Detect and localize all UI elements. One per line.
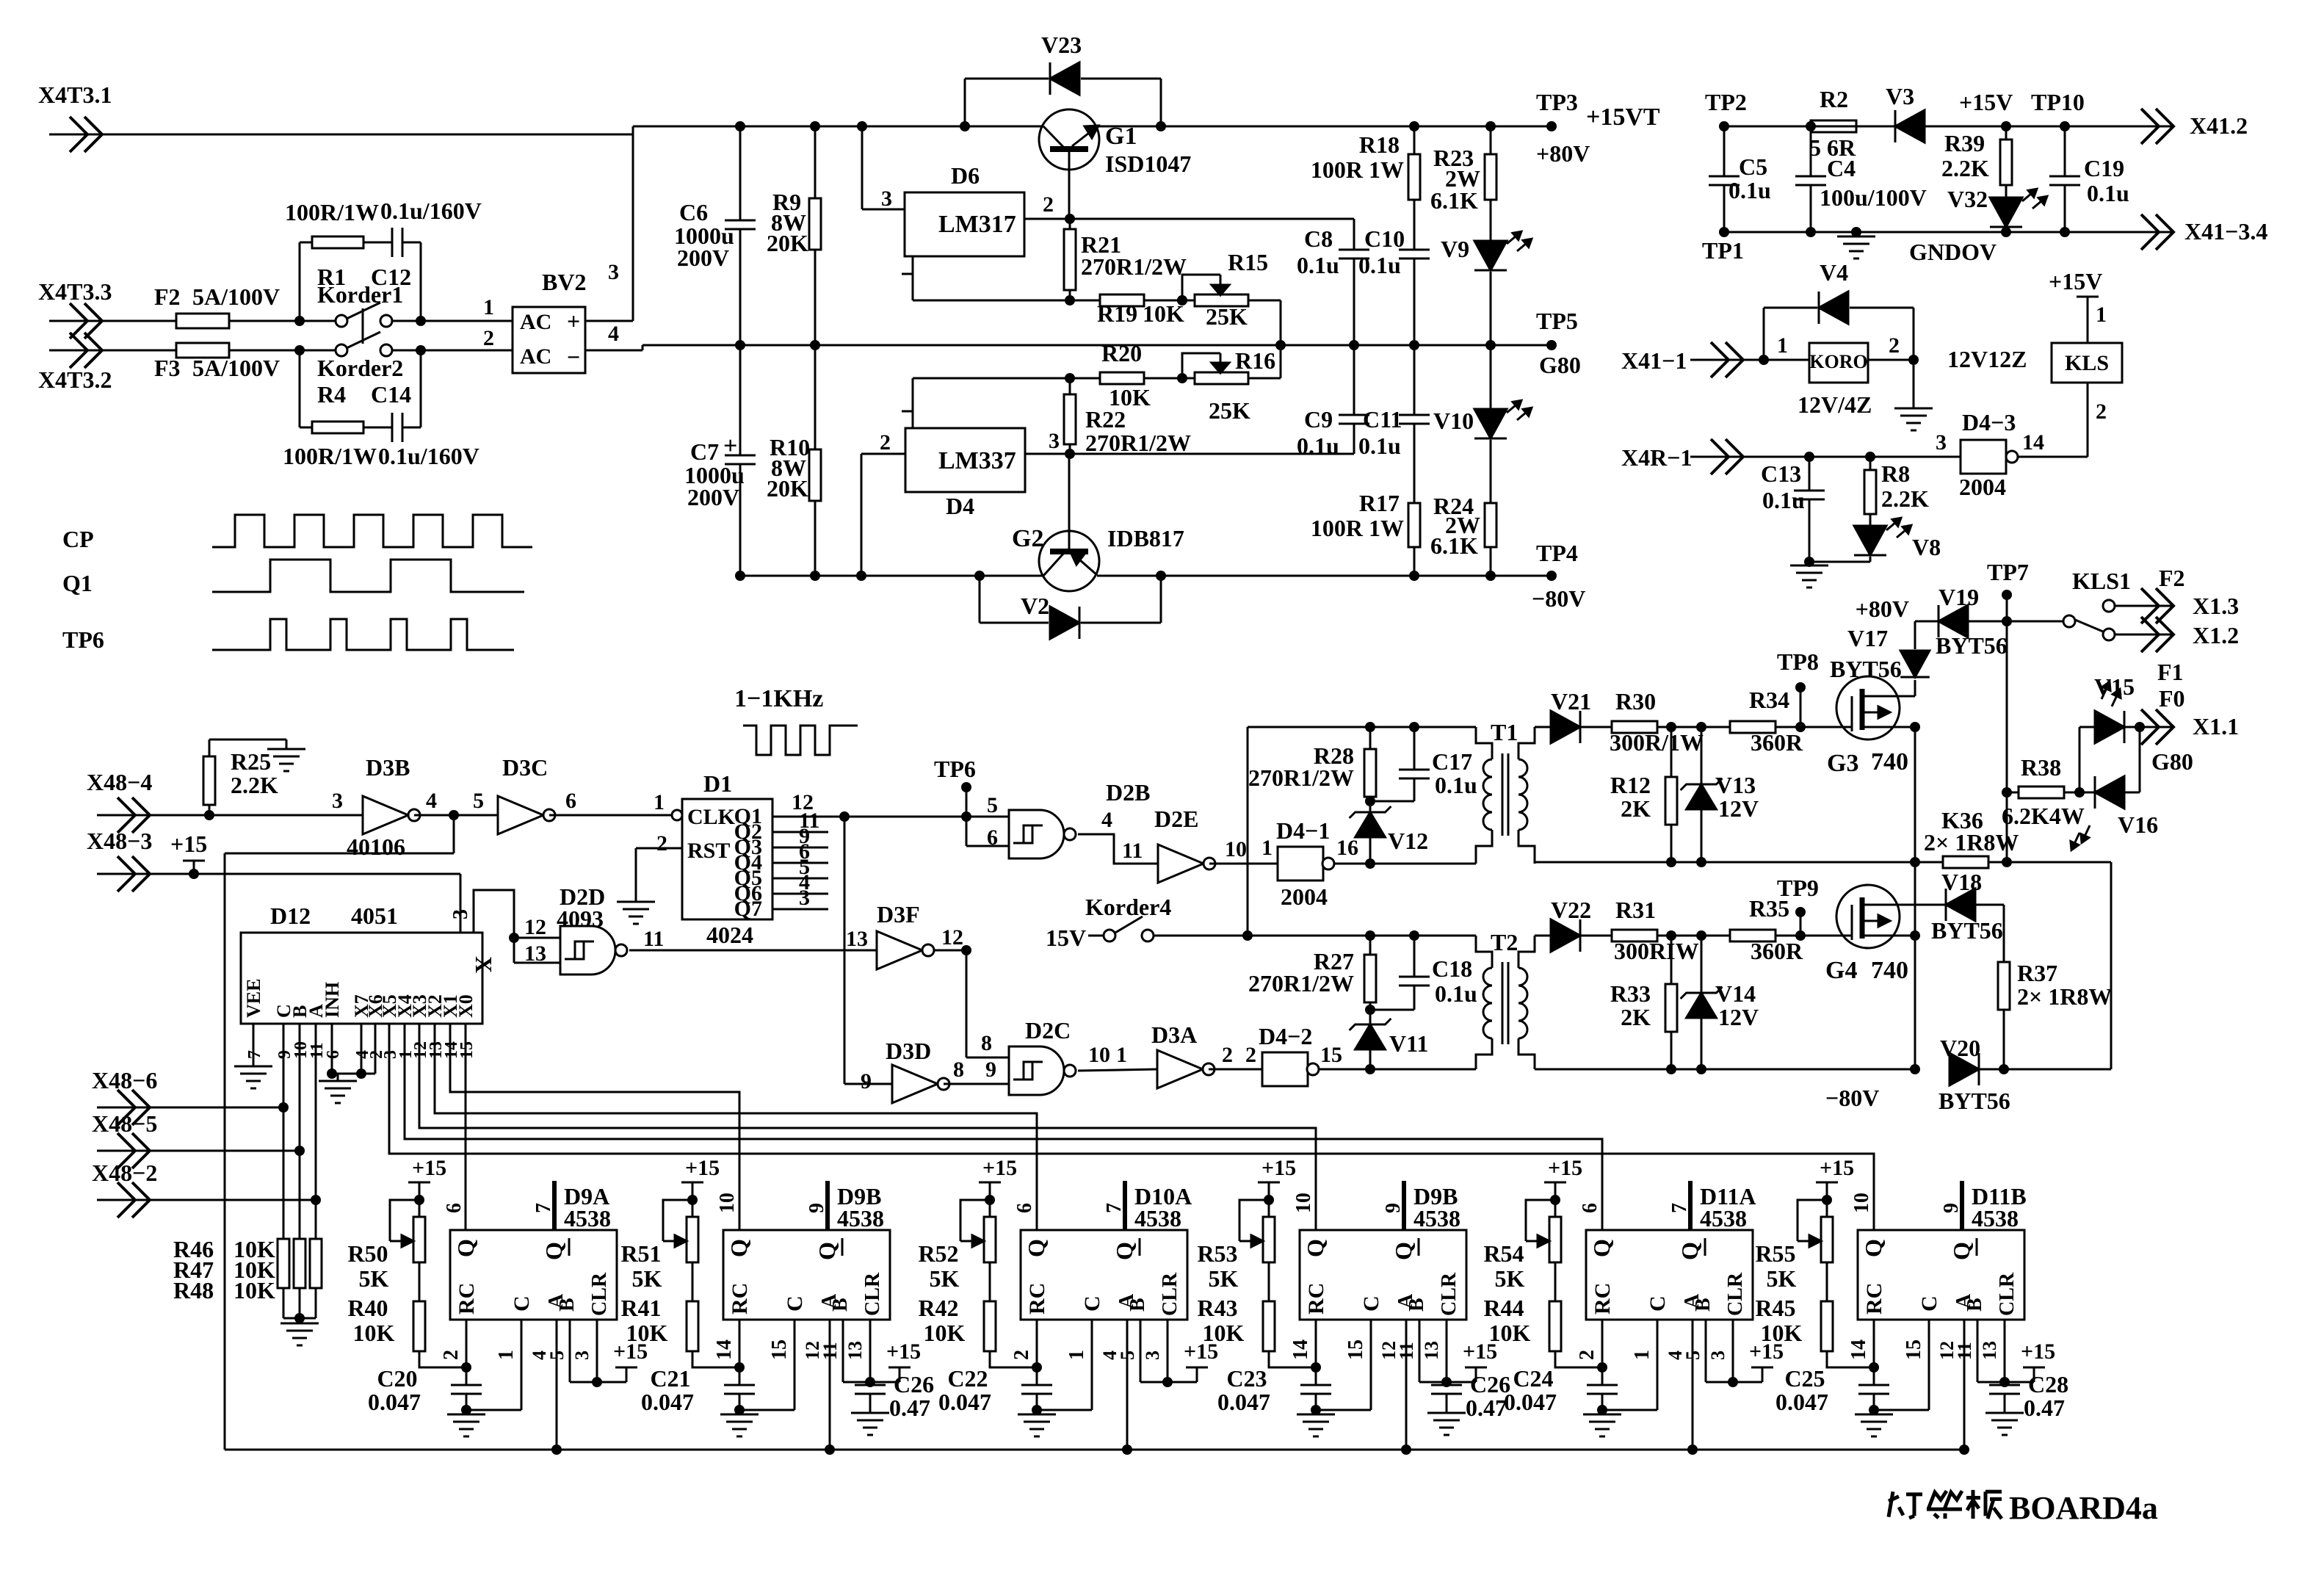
junction source column at K36 rail <box>1910 857 1920 867</box>
junction pot column at G80 rail <box>1275 340 1286 350</box>
junction at C14 right <box>416 345 426 355</box>
junction C22 bottom <box>1032 1405 1042 1415</box>
svg-text:R40: R40 <box>347 1295 388 1321</box>
node X41-3.4 connector <box>2121 231 2173 234</box>
svg-text:270R1/2W: 270R1/2W <box>1248 970 1354 997</box>
junction R38 right / LED pair left <box>2074 787 2085 798</box>
svg-text:R38: R38 <box>2021 754 2061 781</box>
svg-text:4: 4 <box>608 322 619 346</box>
svg-text:F2: F2 <box>2159 565 2185 591</box>
junction R23 top on +rail <box>1485 121 1496 131</box>
ganged switch link Korder1-Korder2 <box>362 308 364 344</box>
svg-text:2K: 2K <box>1621 795 1651 822</box>
svg-text:2K: 2K <box>1621 1004 1651 1030</box>
wire C13 bottom to V8 bottom <box>1809 561 1870 563</box>
svg-text:V12: V12 <box>1388 828 1428 854</box>
svg-text:0.1u/160V: 0.1u/160V <box>378 443 479 469</box>
svg-text:D12: D12 <box>270 903 311 929</box>
svg-text:−80V: −80V <box>1532 585 1585 612</box>
ground at KORO pin2 <box>1913 360 1915 408</box>
svg-text:4538: 4538 <box>1972 1205 2019 1232</box>
svg-text:5K: 5K <box>1495 1265 1525 1292</box>
svg-text:2: 2 <box>483 326 494 350</box>
junction K36 right at TP7 column <box>2002 857 2012 867</box>
svg-text:Q: Q <box>540 1242 567 1260</box>
svg-text:Q7: Q7 <box>734 897 762 921</box>
svg-text:R54: R54 <box>1483 1240 1524 1267</box>
svg-text:0.047: 0.047 <box>938 1389 991 1415</box>
svg-text:C5: C5 <box>1739 153 1767 180</box>
svg-text:5K: 5K <box>632 1265 662 1292</box>
svg-text:X48−6: X48−6 <box>92 1067 157 1093</box>
wire D12 B input from X48-5 <box>299 1024 301 1239</box>
ground under C21 <box>739 1410 741 1414</box>
svg-text:C17: C17 <box>1432 748 1472 775</box>
pin 2 RC junction <box>1601 1320 1604 1367</box>
svg-text:R8: R8 <box>1881 460 1910 487</box>
svg-text:D2B: D2B <box>1106 779 1150 806</box>
svg-text:6.1K: 6.1K <box>1430 532 1478 559</box>
pin 7 Qbar of D10A <box>1123 1181 1127 1230</box>
wire TP7 column <box>2006 621 2008 862</box>
wire G3 source/K36 column <box>1914 727 1916 1069</box>
svg-text:R31: R31 <box>1615 897 1656 923</box>
junction Q1 to D3D branch <box>839 811 850 822</box>
ground at R25 top <box>267 748 305 751</box>
svg-text:X1.2: X1.2 <box>2193 622 2239 648</box>
svg-text:C13: C13 <box>1761 460 1801 487</box>
svg-text:VEE: VEE <box>243 979 264 1018</box>
svg-text:C7: C7 <box>690 438 719 465</box>
junction V23 left on +rail <box>960 121 970 131</box>
svg-text:11: 11 <box>1954 1342 1975 1360</box>
svg-text:RC: RC <box>728 1283 752 1315</box>
junction R9 bottom <box>810 340 820 350</box>
pin 2 RC junction <box>1036 1320 1038 1367</box>
junction R15 left <box>1177 295 1187 305</box>
node F1 X1.2 connector <box>2115 634 2128 636</box>
svg-text:−80V: −80V <box>1825 1085 1879 1111</box>
pin 9 Qbar of D9B <box>1402 1181 1406 1230</box>
monostable D9B 4538 <box>723 1230 890 1320</box>
svg-text:R45: R45 <box>1755 1295 1795 1321</box>
svg-text:V3: V3 <box>1886 83 1914 109</box>
svg-text:2: 2 <box>1889 333 1900 358</box>
svg-text:1: 1 <box>1261 836 1273 860</box>
junction R8 top <box>1865 452 1875 462</box>
svg-text:12: 12 <box>941 925 963 950</box>
svg-text:0.047: 0.047 <box>1217 1389 1270 1415</box>
svg-text:1−1KHz: 1−1KHz <box>734 685 823 712</box>
wire D12 X2 to monostable 3 trigger <box>435 1024 1037 1230</box>
svg-text:740: 740 <box>1871 957 1908 984</box>
title text BOARD4a with Chinese characters <box>1889 1491 1893 1517</box>
svg-text:15: 15 <box>457 1041 477 1059</box>
junction C10 bottom at G80 <box>1409 340 1419 350</box>
svg-text:12V: 12V <box>1718 1004 1759 1030</box>
svg-text:14: 14 <box>713 1339 736 1360</box>
svg-text:40106: 40106 <box>347 833 405 860</box>
svg-text:Q: Q <box>1302 1239 1328 1257</box>
pin 7 Qbar of D11A <box>1688 1181 1693 1230</box>
svg-text:D4−3: D4−3 <box>1962 409 2016 435</box>
svg-text:TP6: TP6 <box>62 626 104 653</box>
svg-text:CLR: CLR <box>1724 1272 1747 1316</box>
svg-text:10K: 10K <box>924 1320 966 1346</box>
svg-text:V16: V16 <box>2118 811 2158 838</box>
svg-text:10: 10 <box>1850 1193 1873 1213</box>
svg-text:12V: 12V <box>1718 795 1759 822</box>
svg-text:TP4: TP4 <box>1536 540 1578 566</box>
junction D3F output <box>933 950 966 952</box>
junction C17 top <box>1409 722 1419 732</box>
svg-text:0.1u/160V: 0.1u/160V <box>380 198 482 224</box>
junction V9 bottom at G80 <box>1485 340 1496 350</box>
svg-text:X4T3.2: X4T3.2 <box>38 366 112 393</box>
svg-text:B: B <box>829 1298 852 1312</box>
junction R22 bottom / G2 base <box>1065 449 1075 459</box>
svg-text:2: 2 <box>1010 1350 1033 1360</box>
svg-text:+15: +15 <box>1820 1156 1854 1180</box>
junction at F3 output <box>294 345 305 355</box>
svg-text:R37: R37 <box>2017 960 2057 986</box>
svg-text:1: 1 <box>654 790 665 814</box>
svg-text:5K: 5K <box>359 1265 389 1292</box>
svg-text:R41: R41 <box>620 1295 661 1321</box>
svg-text:C23: C23 <box>1226 1365 1267 1392</box>
svg-text:RC: RC <box>1590 1283 1615 1315</box>
svg-text:R50: R50 <box>347 1240 388 1267</box>
svg-text:C19: C19 <box>2084 155 2124 181</box>
svg-text:3: 3 <box>1142 1350 1163 1360</box>
svg-text:RC: RC <box>1025 1283 1049 1315</box>
svg-text:D2E: D2E <box>1154 806 1198 832</box>
pin 9 Qbar of D11B <box>1960 1181 1964 1230</box>
svg-text:3: 3 <box>1936 430 1947 455</box>
svg-text:5: 5 <box>546 1350 568 1360</box>
svg-text:TP9: TP9 <box>1777 875 1819 901</box>
pin 5 B and pin 3 CLR to +15 <box>1140 1320 1142 1382</box>
svg-text:6: 6 <box>565 789 576 813</box>
svg-text:0.1u: 0.1u <box>1358 433 1401 459</box>
svg-text:TP7: TP7 <box>1987 559 2029 585</box>
svg-text:1: 1 <box>495 1350 518 1360</box>
svg-text:T2: T2 <box>1491 929 1518 955</box>
svg-text:F2: F2 <box>154 283 181 310</box>
monostable D11A 4538 <box>1586 1230 1753 1320</box>
svg-text:V10: V10 <box>1433 408 1474 434</box>
svg-text:R17: R17 <box>1359 490 1400 516</box>
wire D3F output down to D2C pin 8 <box>966 950 968 1057</box>
svg-text:0.1u: 0.1u <box>1297 433 1339 459</box>
junction R33 top <box>1666 930 1676 941</box>
junction C24 bottom <box>1597 1405 1607 1415</box>
wire R15 right down to G80 rail <box>1280 300 1282 378</box>
svg-text:RC: RC <box>1304 1283 1328 1315</box>
svg-text:R39: R39 <box>1944 130 1985 156</box>
pin 5 B and pin 3 CLR to +15 <box>569 1320 571 1382</box>
junction D3B output <box>414 814 498 817</box>
svg-text:Q1: Q1 <box>62 570 93 596</box>
svg-text:V23: V23 <box>1041 32 1082 58</box>
svg-text:R44: R44 <box>1483 1295 1524 1321</box>
ground under C22 <box>1036 1410 1038 1414</box>
junction gnd on GNDOV rail <box>1851 227 1861 237</box>
svg-text:C: C <box>510 1295 534 1312</box>
svg-text:2.2K: 2.2K <box>231 772 278 798</box>
svg-text:+15: +15 <box>886 1339 921 1364</box>
junction G3 source <box>1910 722 1920 732</box>
pin 14 RC junction <box>739 1320 741 1367</box>
svg-text:C14: C14 <box>371 381 411 408</box>
svg-text:10: 10 <box>1225 837 1247 861</box>
ground under C26 <box>1427 1412 1466 1414</box>
svg-text:CLR: CLR <box>1159 1272 1181 1316</box>
svg-text:Q: Q <box>1676 1242 1703 1260</box>
pin 12 A trigger wire of D9B <box>829 1320 831 1450</box>
wire X48-4 to D3B <box>150 814 363 817</box>
wire D12 C input from X48-6 <box>283 1024 285 1239</box>
svg-text:5A/100V: 5A/100V <box>192 283 280 310</box>
svg-text:13: 13 <box>1421 1341 1442 1360</box>
svg-text:X0: X0 <box>455 994 477 1018</box>
svg-text:+15: +15 <box>1548 1156 1582 1180</box>
svg-text:+: + <box>567 308 580 334</box>
svg-text:CP: CP <box>62 526 94 552</box>
svg-text:3: 3 <box>332 789 343 813</box>
junction V11 bottom <box>1365 1064 1375 1074</box>
svg-text:Q: Q <box>452 1239 479 1257</box>
junction R2 left / C4 top <box>1806 121 1816 131</box>
wire D12 X1 to monostable 2 trigger <box>450 1024 739 1230</box>
svg-text:KLS: KLS <box>2065 351 2109 375</box>
svg-text:10: 10 <box>1292 1193 1315 1213</box>
svg-text:Q: Q <box>1390 1242 1416 1260</box>
svg-text:13: 13 <box>1979 1341 2000 1360</box>
svg-text:1: 1 <box>1777 333 1788 358</box>
svg-text:7: 7 <box>1668 1203 1691 1213</box>
pin 1 C wire of D11A <box>1657 1320 1659 1410</box>
svg-text:RC: RC <box>455 1283 479 1315</box>
svg-text:G80: G80 <box>2151 748 2193 775</box>
svg-text:G1: G1 <box>1105 123 1137 150</box>
svg-text:6.2K4W: 6.2K4W <box>2002 803 2085 829</box>
wire T2 return / -80V rail <box>1535 1068 1915 1071</box>
svg-text:C18: C18 <box>1432 955 1472 982</box>
ground under C26 <box>851 1412 889 1414</box>
svg-text:7: 7 <box>532 1203 555 1213</box>
wire D2B output to D2E input <box>1078 834 1158 864</box>
svg-text:R12: R12 <box>1610 772 1651 798</box>
svg-text:6: 6 <box>443 1203 466 1213</box>
wire LM317 output to C8 <box>1070 218 1354 220</box>
svg-text:D3C: D3C <box>502 754 548 781</box>
svg-text:5K: 5K <box>1209 1265 1239 1292</box>
svg-text:14: 14 <box>2022 430 2044 455</box>
wire D2D output to D3F <box>629 950 877 952</box>
svg-text:2004: 2004 <box>1959 474 2006 500</box>
svg-text:AC: AC <box>520 310 551 334</box>
svg-text:9: 9 <box>1940 1203 1963 1213</box>
junction V12 bottom <box>1365 858 1375 869</box>
junction base of G1 / R21 top <box>1065 214 1075 224</box>
svg-text:RC: RC <box>1862 1283 1886 1315</box>
svg-text:15V: 15V <box>1046 925 1086 951</box>
svg-text:C20: C20 <box>377 1365 417 1392</box>
svg-text:6.1K: 6.1K <box>1430 187 1478 214</box>
svg-text:10: 10 <box>716 1193 739 1213</box>
svg-text:RST: RST <box>687 839 730 863</box>
svg-text:X48−3: X48−3 <box>87 828 152 854</box>
svg-text:X41.2: X41.2 <box>2190 112 2248 139</box>
junction R25 bottom <box>204 810 214 820</box>
junction C23 bottom <box>1311 1405 1321 1415</box>
capacitor C28 0.47 <box>2004 1382 2006 1385</box>
svg-text:3: 3 <box>1707 1350 1728 1360</box>
pin 11 B and pin 13 CLR to +15 <box>842 1320 844 1382</box>
svg-text:5K: 5K <box>930 1265 960 1292</box>
wire T2 drive rail <box>1248 935 1476 937</box>
wire D12 X4 to monostable 5 trigger <box>405 1024 1602 1230</box>
wire drive column T1/T2 <box>1247 727 1249 936</box>
pin 11 B and pin 13 CLR to +15 <box>1419 1320 1421 1382</box>
junction C18 top <box>1409 930 1419 941</box>
wire ADJ row to R19 <box>913 300 1100 302</box>
svg-text:V22: V22 <box>1551 897 1591 923</box>
junction C4 bottom <box>1806 227 1816 237</box>
wire D3C output to D1 CLK <box>549 814 672 817</box>
svg-text:1: 1 <box>1631 1350 1654 1360</box>
wire D12 X5 to monostable 6 trigger <box>389 1024 1874 1230</box>
svg-text:D1: D1 <box>703 770 732 797</box>
svg-text:+15: +15 <box>1261 1156 1296 1180</box>
svg-text:2: 2 <box>1222 1043 1233 1067</box>
svg-text:D3B: D3B <box>366 754 410 781</box>
svg-text:4093: 4093 <box>557 905 604 932</box>
svg-text:3: 3 <box>608 260 619 284</box>
wire R45 to RC pin <box>1827 1351 1874 1367</box>
wire Q1 branch down to D3D input <box>844 817 846 1084</box>
svg-text:3: 3 <box>799 886 810 910</box>
svg-text:270R1/2W: 270R1/2W <box>1248 764 1354 791</box>
svg-text:R43: R43 <box>1197 1295 1237 1321</box>
junction R12 bottom <box>1666 857 1676 867</box>
svg-text:0.1u: 0.1u <box>1435 980 1477 1007</box>
svg-text:LM317: LM317 <box>938 211 1016 238</box>
junction V2 right on -80V rail <box>1156 571 1166 581</box>
svg-text:C25: C25 <box>1784 1365 1825 1392</box>
svg-text:Q: Q <box>1023 1239 1049 1257</box>
wire R41 to RC pin <box>692 1351 739 1367</box>
svg-text:0.047: 0.047 <box>1504 1389 1557 1415</box>
wire to X1.3 <box>2115 605 2128 607</box>
svg-text:2× 1R8W: 2× 1R8W <box>2017 983 2112 1010</box>
svg-text:D3D: D3D <box>886 1038 931 1064</box>
wire R43 to RC pin <box>1269 1351 1316 1367</box>
svg-text:TP5: TP5 <box>1536 308 1578 334</box>
svg-text:200V: 200V <box>687 484 739 510</box>
ground under C23 <box>1315 1410 1317 1414</box>
junction C13 top <box>1804 452 1814 462</box>
svg-text:0.047: 0.047 <box>641 1389 694 1415</box>
svg-text:5: 5 <box>987 793 998 817</box>
wire LM337 output to C9 row <box>1070 453 1354 455</box>
junction V23 right on +rail <box>1156 121 1166 131</box>
svg-text:C: C <box>1646 1295 1670 1312</box>
svg-text:R16: R16 <box>1235 347 1275 374</box>
svg-text:2: 2 <box>2096 399 2107 424</box>
svg-text:V20: V20 <box>1940 1035 1980 1061</box>
svg-text:1: 1 <box>483 295 494 319</box>
svg-text:25K: 25K <box>1209 397 1250 424</box>
svg-text:100R/1W: 100R/1W <box>285 199 379 225</box>
svg-text:14: 14 <box>1289 1339 1312 1360</box>
svg-text:0.47: 0.47 <box>889 1395 930 1421</box>
svg-text:V4: V4 <box>1820 259 1848 286</box>
wire D2E to D4-1 <box>1209 863 1278 865</box>
svg-text:G2: G2 <box>1012 525 1043 552</box>
svg-text:12V12Z: 12V12Z <box>1947 346 2027 372</box>
junction R17 bottom on -80V rail <box>1409 571 1419 581</box>
svg-text:C10: C10 <box>1364 225 1405 252</box>
svg-text:R25: R25 <box>231 748 271 775</box>
svg-text:100R/1W: 100R/1W <box>283 443 377 469</box>
svg-text:3: 3 <box>1049 429 1060 453</box>
junction V13 top <box>1696 722 1706 732</box>
svg-text:Q: Q <box>1111 1242 1137 1260</box>
svg-text:11: 11 <box>1396 1342 1417 1360</box>
svg-text:2.2K: 2.2K <box>1941 155 1989 181</box>
svg-text:R33: R33 <box>1610 980 1651 1007</box>
svg-text:Korder2: Korder2 <box>317 355 403 381</box>
LM317 ADJ pin wire <box>912 256 914 300</box>
svg-text:D3F: D3F <box>877 901 920 927</box>
svg-text:CLR: CLR <box>588 1272 611 1316</box>
svg-text:2: 2 <box>880 430 891 455</box>
svg-text:20K: 20K <box>767 475 808 502</box>
svg-text:X4T3.1: X4T3.1 <box>38 82 112 108</box>
svg-text:Q: Q <box>814 1242 840 1260</box>
junction C6 bottom on G80 line <box>735 340 745 350</box>
svg-text:X4R−1: X4R−1 <box>1621 444 1692 471</box>
svg-text:C: C <box>1917 1295 1941 1312</box>
svg-text:V19: V19 <box>1939 584 1979 610</box>
svg-text:D4: D4 <box>946 493 974 519</box>
svg-text:D6: D6 <box>951 162 980 189</box>
junction C8 bottom at G80 <box>1349 340 1359 350</box>
svg-text:4: 4 <box>426 789 437 813</box>
wire R42 to RC pin <box>990 1351 1037 1367</box>
node X41.2 connector <box>2121 126 2173 128</box>
wire TP6 to D2B pin 6 <box>966 787 968 846</box>
svg-text:F0: F0 <box>2159 685 2185 712</box>
junction KORO pin2 <box>1908 355 1919 365</box>
pin 15 C wire of D9B <box>794 1320 796 1410</box>
svg-text:740: 740 <box>1871 748 1908 775</box>
svg-text:4538: 4538 <box>1413 1205 1460 1232</box>
svg-text:BV2: BV2 <box>542 269 586 295</box>
svg-text:6: 6 <box>987 825 998 850</box>
junction V4 left <box>1759 355 1769 365</box>
svg-text:9: 9 <box>861 1069 872 1093</box>
svg-text:V32: V32 <box>1947 186 1988 212</box>
wire D4-1 output to T1 <box>1334 863 1476 865</box>
svg-text:5: 5 <box>1117 1350 1138 1360</box>
pin 9 Qbar of D9B <box>825 1181 830 1230</box>
svg-text:4538: 4538 <box>1700 1205 1747 1232</box>
junction R21 bottom / R19 row <box>1065 295 1075 305</box>
svg-text:R48: R48 <box>173 1277 214 1303</box>
